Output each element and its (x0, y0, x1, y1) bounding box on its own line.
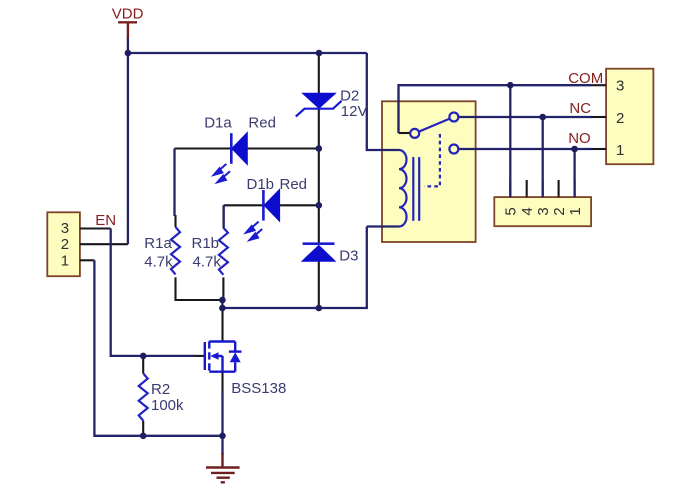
svg-text:100k: 100k (151, 397, 184, 414)
svg-text:R2: R2 (151, 381, 170, 398)
svg-text:VDD: VDD (112, 5, 144, 22)
svg-text:Red: Red (248, 115, 276, 132)
svg-text:COM: COM (568, 70, 603, 87)
svg-text:5: 5 (503, 207, 520, 215)
svg-text:3: 3 (616, 78, 624, 95)
svg-text:3: 3 (535, 207, 552, 215)
svg-text:NC: NC (569, 100, 591, 117)
svg-text:NO: NO (568, 130, 591, 147)
svg-text:D2: D2 (340, 88, 359, 105)
svg-text:BSS138: BSS138 (231, 380, 286, 397)
svg-text:1: 1 (616, 142, 624, 159)
svg-text:EN: EN (95, 212, 116, 229)
svg-text:4.7k: 4.7k (193, 254, 222, 271)
svg-text:D3: D3 (339, 248, 358, 265)
svg-text:D1b: D1b (247, 176, 275, 193)
svg-text:4.7k: 4.7k (144, 254, 173, 271)
svg-text:R1b: R1b (192, 235, 220, 252)
svg-text:4: 4 (519, 207, 536, 215)
svg-text:D1a: D1a (204, 115, 232, 132)
svg-text:3: 3 (61, 220, 69, 237)
svg-text:12V: 12V (341, 103, 368, 120)
svg-text:Red: Red (280, 176, 308, 193)
svg-text:2: 2 (61, 236, 69, 253)
svg-text:2: 2 (551, 207, 568, 215)
svg-text:2: 2 (616, 110, 624, 127)
svg-text:R1a: R1a (144, 235, 172, 252)
svg-text:1: 1 (567, 207, 584, 215)
svg-text:1: 1 (61, 253, 69, 270)
